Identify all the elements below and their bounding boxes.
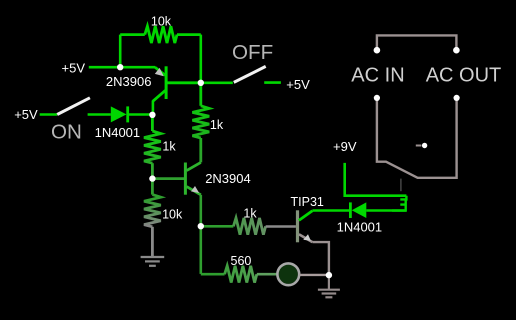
2N3904 emitter diagonal xyxy=(187,187,201,195)
relay coil L1 xyxy=(392,196,406,211)
svg-text:10k: 10k xyxy=(162,208,183,222)
svg-text:560: 560 xyxy=(231,254,252,268)
node D junction dot xyxy=(149,175,155,181)
relay pivot dot xyxy=(422,143,427,148)
2N3904 base bar xyxy=(184,163,187,195)
wire diode D2 to relay coil xyxy=(366,209,406,212)
switch OFF blade (open) xyxy=(234,66,266,82)
wire 10k down to node B xyxy=(200,35,203,83)
wire +5V lead to node A xyxy=(89,66,120,69)
svg-text:+5V: +5V xyxy=(286,77,310,92)
resistor 1k (horizontal, to TIP31 base) xyxy=(201,218,296,235)
node A junction dot xyxy=(117,64,123,70)
wire TIP31 collector to diode D2 xyxy=(312,209,349,212)
wire +9V to relay coil top xyxy=(345,163,407,196)
ground (left) xyxy=(141,257,165,266)
relay pivot stub xyxy=(416,145,422,147)
svg-text:+5V: +5V xyxy=(14,107,38,122)
wire TIP31 emitter to node F xyxy=(312,242,329,275)
wire diode D1 to node C xyxy=(129,113,153,116)
TIP31 base bar xyxy=(296,210,299,242)
switch ON blade (open) xyxy=(57,98,90,115)
TIP31 emitter arrow xyxy=(303,234,311,241)
svg-text:1k: 1k xyxy=(243,206,257,220)
2N3904 base lead xyxy=(152,177,184,180)
svg-text:+9V: +9V xyxy=(333,139,357,154)
svg-text:10k: 10k xyxy=(151,15,172,29)
2N3906 base bar xyxy=(165,66,168,99)
svg-text:1N4001: 1N4001 xyxy=(337,220,383,235)
2N3904 collector diagonal xyxy=(187,162,201,170)
svg-text:ON: ON xyxy=(51,120,82,143)
diode D1 1N4001 (ON path) xyxy=(111,106,128,122)
2N3906 emitter arrow xyxy=(155,68,164,76)
2N3904 emitter arrow xyxy=(191,186,199,193)
wire +5V to ON switch xyxy=(40,113,57,116)
relay switch armature xyxy=(377,101,457,178)
node C junction dot xyxy=(149,112,155,118)
2N3906 collector diagonal xyxy=(153,90,165,101)
TIP31 collector diagonal xyxy=(299,211,313,221)
resistor 10k (top) xyxy=(120,26,201,43)
wire node A up to 10k xyxy=(119,35,122,69)
wire 2N3904 emitter down to node E xyxy=(200,195,203,226)
svg-text:1N4001: 1N4001 xyxy=(95,125,141,140)
node F junction dot xyxy=(326,272,332,278)
svg-text:OFF: OFF xyxy=(232,41,273,64)
wire node A to 2N3906 emitter xyxy=(120,66,155,69)
wire LED to node F xyxy=(299,274,329,276)
TIP31 emitter diagonal xyxy=(299,234,313,242)
transistor Q1 2N3906 xyxy=(153,66,201,101)
node E junction dot xyxy=(198,223,204,229)
resistor 560 xyxy=(201,266,278,283)
relay AC OUT top post xyxy=(453,47,460,54)
relay switch post (AC OUT) xyxy=(454,95,460,101)
svg-text:1k: 1k xyxy=(210,118,224,132)
svg-text:AC OUT: AC OUT xyxy=(426,64,502,86)
transistor Q2 2N3904 xyxy=(152,162,200,194)
2N3906 base lead xyxy=(166,81,201,84)
resistor 1k (left vertical) xyxy=(144,115,161,179)
diode D2 1N4001 (relay coil) xyxy=(350,202,366,218)
svg-text:2N3906: 2N3906 xyxy=(106,74,152,89)
relay coil-armature link xyxy=(400,179,402,192)
2N3906 emitter diagonal xyxy=(155,67,165,75)
resistor 10k (lower vertical) xyxy=(144,179,161,256)
wire node B to OFF switch xyxy=(201,82,233,85)
relay switch post (AC IN) xyxy=(374,95,380,101)
transistor Q3 TIP31 xyxy=(298,210,313,242)
svg-text:+5V: +5V xyxy=(62,60,86,75)
wire 2N3906 collector down to node C xyxy=(152,101,155,115)
svg-text:2N3904: 2N3904 xyxy=(205,171,251,186)
node B junction dot xyxy=(198,80,204,86)
svg-text:TIP31: TIP31 xyxy=(291,195,324,209)
relay top bracket wire xyxy=(377,35,457,50)
svg-text:1k: 1k xyxy=(162,140,176,154)
LED indicator xyxy=(277,263,299,285)
relay AC IN top post xyxy=(374,47,381,54)
resistor 1k (right vertical) xyxy=(192,83,209,163)
svg-text:AC IN: AC IN xyxy=(351,64,404,86)
wire OFF switch to +5V xyxy=(264,81,281,84)
ground (right) xyxy=(318,275,340,297)
wire ON switch to diode D1 xyxy=(88,113,111,116)
wire node E down to 560 row xyxy=(200,226,203,274)
